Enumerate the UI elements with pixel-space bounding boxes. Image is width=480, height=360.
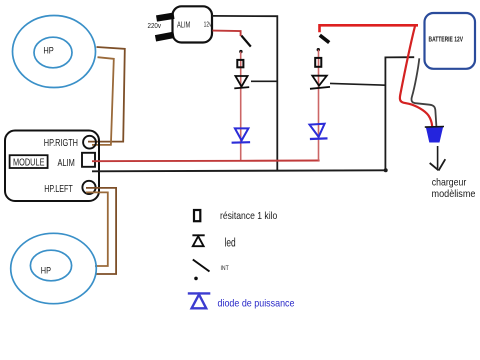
svg-text:BATTERIE 12V: BATTERIE 12V bbox=[429, 35, 464, 44]
label MODULE bbox=[10, 155, 48, 168]
legend switch INT symbol bbox=[193, 260, 210, 272]
220v input stub lower bbox=[156, 35, 175, 39]
svg-text:HP.LEFT: HP.LEFT bbox=[44, 184, 73, 195]
wire brown HP top outer to HP.RIGTH bbox=[88, 47, 125, 142]
wire red top bus battery to branch2 bbox=[320, 25, 419, 32]
wire brown HP.LEFT outer to HP bottom bbox=[86, 188, 116, 274]
wire brown HP top inner to HP.RIGTH bbox=[92, 57, 114, 145]
terminal HP.LEFT circle bbox=[82, 181, 95, 194]
svg-text:220v: 220v bbox=[148, 21, 162, 30]
220v input stub upper bbox=[157, 16, 175, 19]
svg-text:modèlisme: modèlisme bbox=[432, 188, 476, 200]
svg-text:MODULE: MODULE bbox=[13, 158, 45, 169]
label chargeur modelisme bbox=[432, 177, 476, 200]
led D2 bbox=[310, 76, 330, 89]
diode de puissance D3 bbox=[232, 128, 251, 142]
legend led symbol bbox=[192, 235, 204, 246]
svg-text:INT: INT bbox=[221, 265, 229, 272]
wire brown HP.LEFT inner to HP bottom bbox=[86, 192, 108, 266]
node dot branch2 bbox=[317, 48, 320, 51]
rail B vertical bbox=[385, 57, 414, 170]
wire red ALIM 12v to switch INT1 bbox=[213, 31, 241, 36]
led D1 bbox=[234, 76, 249, 88]
wire red curvy to charger bbox=[400, 26, 432, 126]
legend node dot bbox=[194, 277, 198, 281]
svg-text:HP: HP bbox=[43, 45, 53, 55]
wire black bus module to rail B bbox=[92, 170, 386, 171]
arrow to charger label bbox=[430, 146, 446, 171]
svg-text:HP.RIGTH: HP.RIGTH bbox=[44, 138, 78, 149]
speaker HP bottom bbox=[11, 233, 97, 303]
svg-text:ALIM: ALIM bbox=[177, 21, 191, 30]
node dot branch1 bbox=[239, 50, 242, 53]
svg-text:chargeur: chargeur bbox=[432, 177, 467, 189]
wire red bus ALIM module to branch2 bbox=[92, 160, 320, 163]
speaker HP top bbox=[13, 16, 96, 88]
battery BATTERIE 12V bbox=[425, 13, 476, 69]
power supply ALIM box bbox=[173, 6, 213, 42]
svg-text:12v: 12v bbox=[204, 21, 212, 28]
svg-text:résitance 1 kilo: résitance 1 kilo bbox=[220, 210, 277, 222]
junction dot rail B bus bbox=[384, 168, 388, 172]
wire black ALIM top to rail A bbox=[212, 16, 277, 171]
resistor R2 1 kilo bbox=[315, 58, 321, 67]
charger plug bbox=[426, 127, 443, 143]
legend power diode symbol bbox=[188, 293, 211, 308]
terminal HP.RIGTH circle bbox=[83, 136, 96, 149]
diode de puissance D4 bbox=[310, 124, 328, 139]
svg-text:diode de puissance: diode de puissance bbox=[218, 298, 295, 310]
wire red branch1 vertical bbox=[240, 52, 242, 161]
resistor R1 1 kilo bbox=[237, 60, 243, 67]
wire red branch2 vertical bbox=[318, 50, 320, 161]
svg-text:ALIM: ALIM bbox=[58, 158, 75, 169]
wire black curvy battery to charger bbox=[411, 58, 436, 126]
legend resistor symbol bbox=[194, 210, 200, 221]
switch INT1 bbox=[241, 36, 250, 47]
wire black branch2 to rail B bbox=[330, 83, 386, 85]
terminal ALIM square bbox=[82, 153, 95, 167]
module box U1 bbox=[5, 131, 99, 202]
switch INT2 bbox=[320, 35, 329, 42]
svg-text:HP: HP bbox=[41, 266, 51, 276]
svg-text:led: led bbox=[225, 237, 236, 249]
wire black branch1 to rail A bbox=[251, 80, 277, 82]
